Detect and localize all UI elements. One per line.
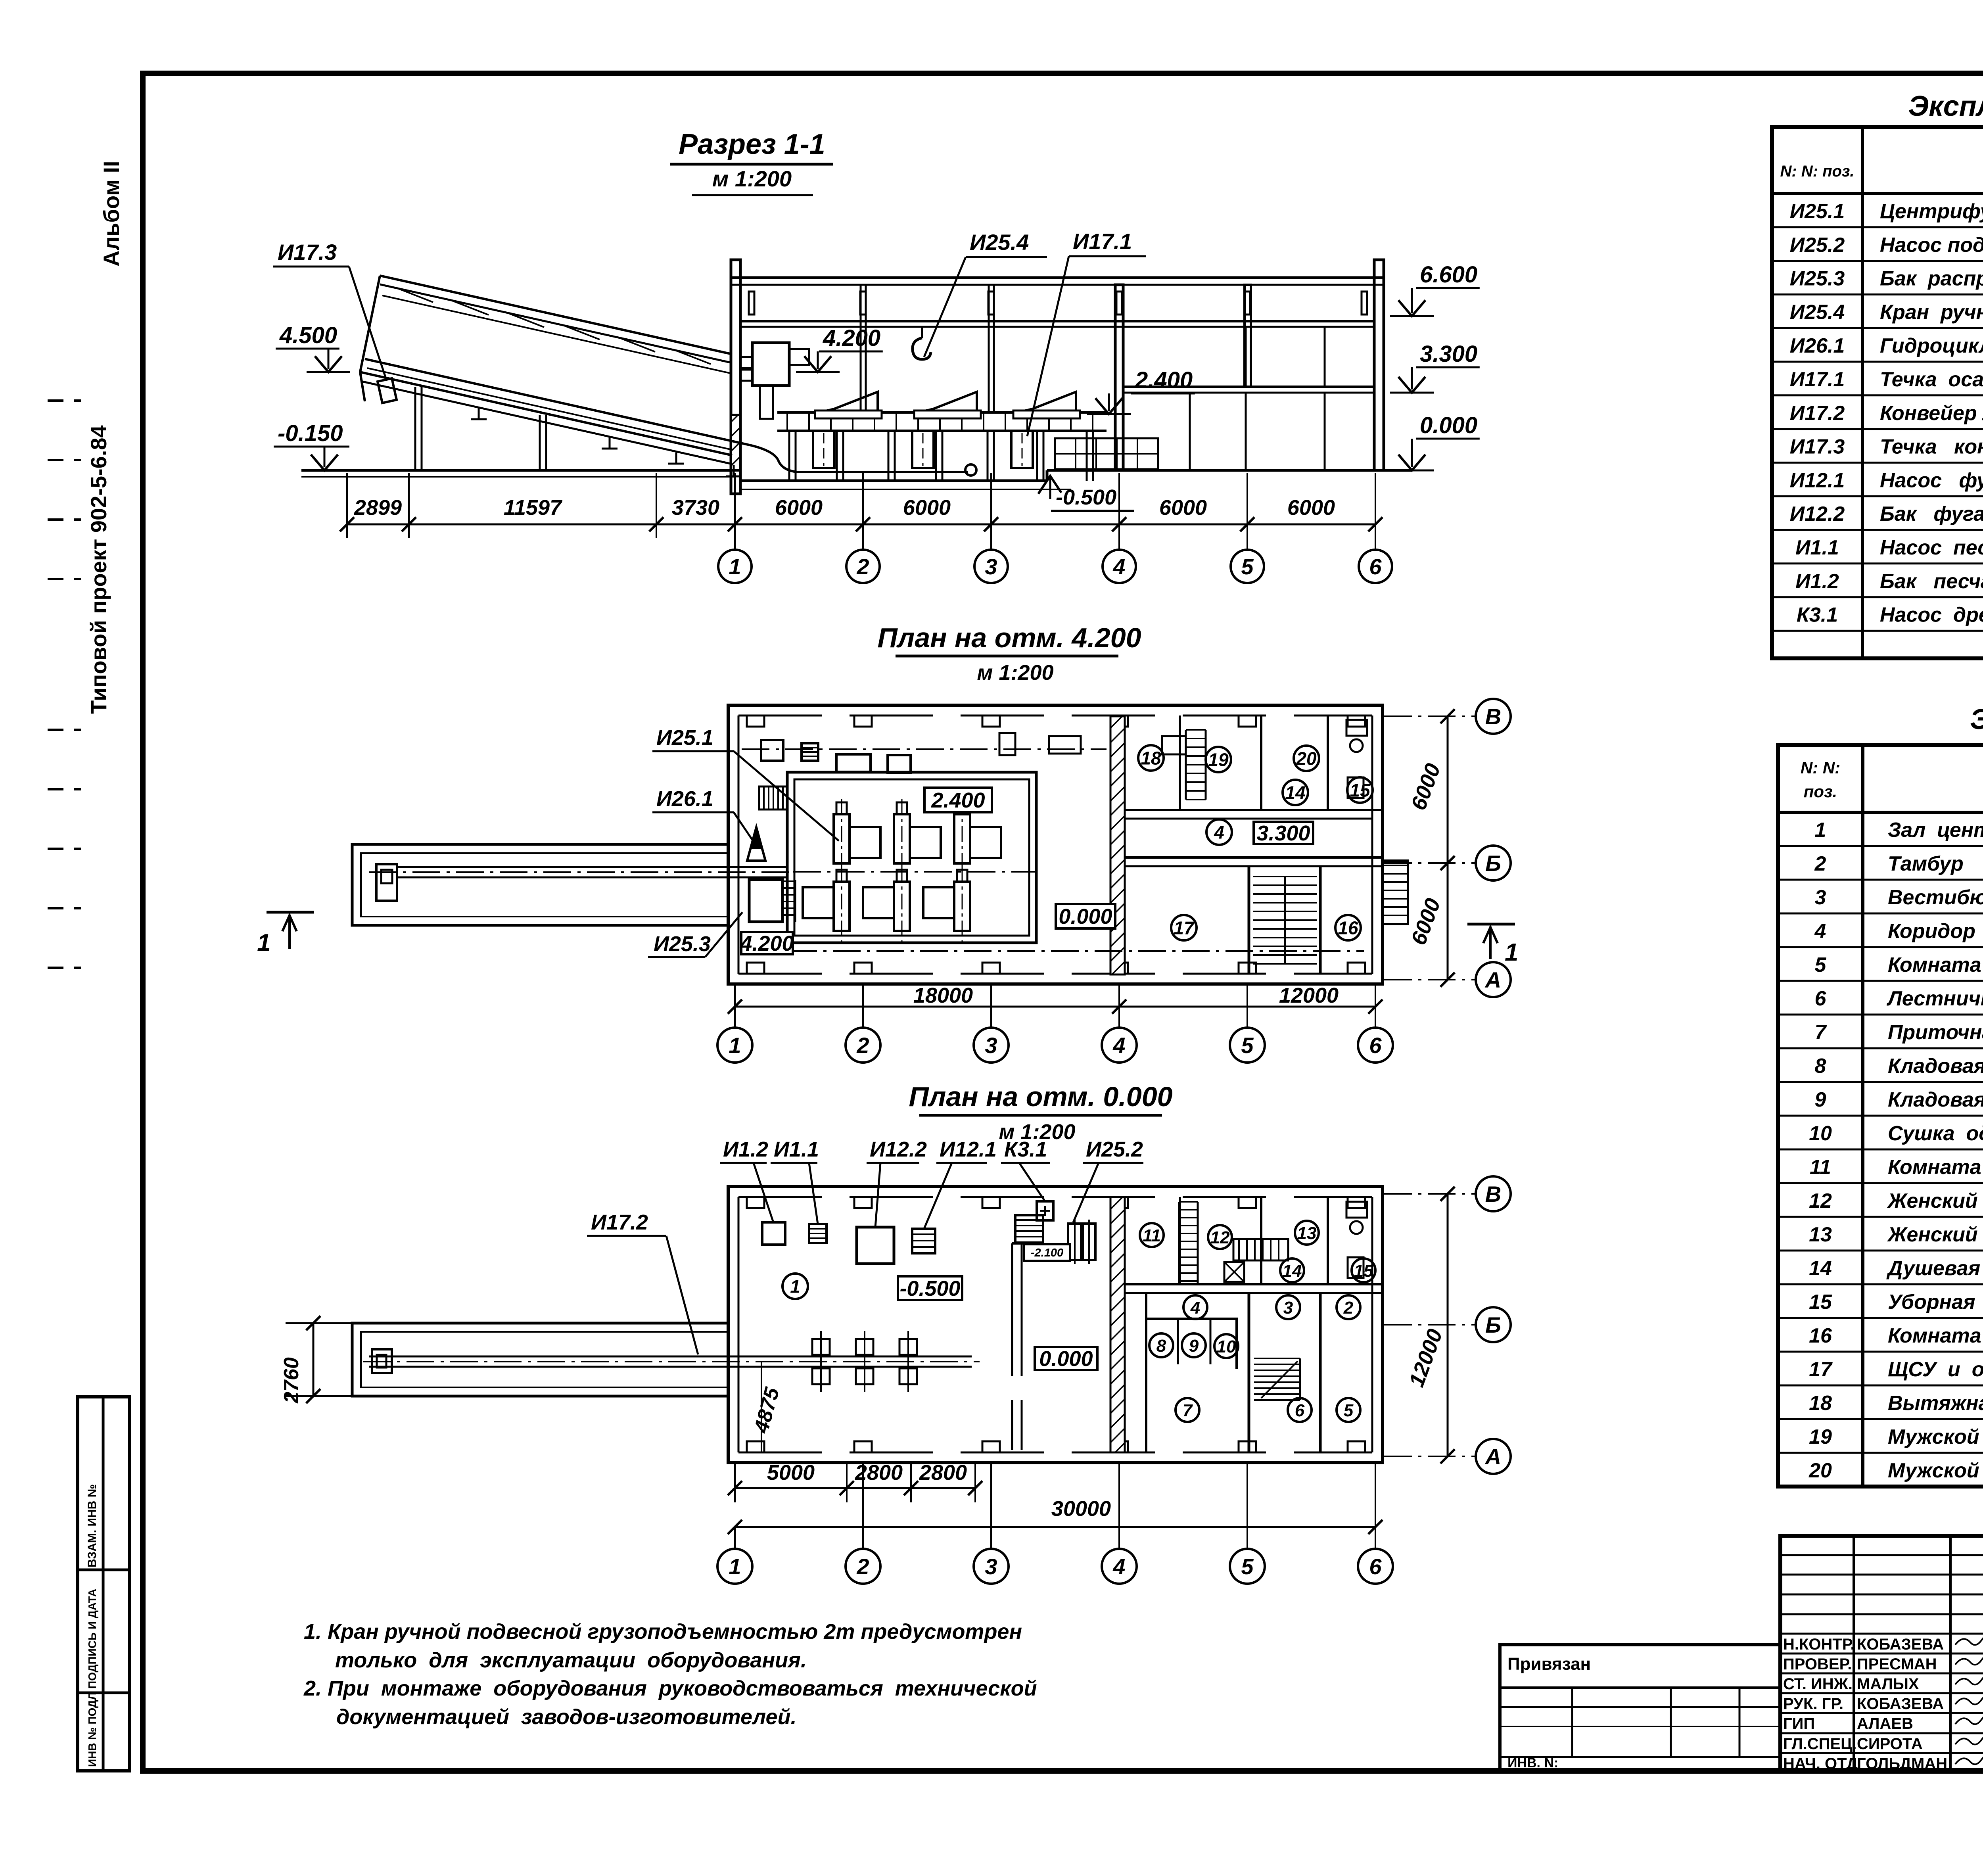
svg-text:И25.4: И25.4 <box>970 230 1029 255</box>
svg-text:ИНВ № ПОДЛ: ИНВ № ПОДЛ <box>86 1692 98 1767</box>
svg-text:Женский гардероб уличной и: Женский гардероб уличной и домашней одеж… <box>1887 1223 1983 1246</box>
svg-text:Привязан: Привязан <box>1507 1654 1591 1674</box>
svg-text:3.300: 3.300 <box>1256 821 1310 845</box>
plan 0.000: room 1 circle & level boxes <box>782 1274 808 1299</box>
svg-text:Комната начальника: Комната начальника <box>1888 1324 1983 1347</box>
svg-text:СИРОТА: СИРОТА <box>1857 1735 1923 1753</box>
plan 4.200: hydrocyclone И26.1 <box>747 827 765 861</box>
section: conveyor belt И17.2 line <box>365 359 968 472</box>
plan 4.200: ladder near left <box>759 786 787 809</box>
svg-text:Тамбур: Тамбур <box>1888 852 1964 875</box>
plan 0.000: conveyor supports in hall <box>812 1339 830 1355</box>
section: ceiling slab 6.600 double line <box>740 320 1374 322</box>
svg-text:Комната обслуживающего персо: Комната обслуживающего персонала <box>1888 953 1983 976</box>
svg-text:5: 5 <box>1344 1401 1354 1420</box>
plan 4.200: right part partition walls <box>1125 809 1383 811</box>
svg-text:10: 10 <box>1217 1337 1236 1356</box>
svg-text:12: 12 <box>1809 1189 1832 1212</box>
svg-text:Насос подачи осадка СД50/10(Ф: Насос подачи осадка СД50/10(ФГ57.5/9.5) <box>1880 234 1983 257</box>
svg-text:2: 2 <box>856 554 869 579</box>
svg-text:3.300: 3.300 <box>1420 341 1477 367</box>
section: ground floor partitions right part <box>1189 393 1191 470</box>
svg-text:16: 16 <box>1809 1324 1832 1347</box>
svg-text:3: 3 <box>985 554 997 579</box>
svg-text:7: 7 <box>1815 1021 1827 1044</box>
plan 0.000: room circles <box>1140 1223 1164 1247</box>
svg-text:ПРОВЕР.: ПРОВЕР. <box>1783 1655 1852 1673</box>
svg-text:2: 2 <box>856 1554 869 1579</box>
svg-text:19: 19 <box>1809 1425 1832 1448</box>
svg-text:5: 5 <box>1241 554 1254 579</box>
svg-text:Насос дренажный ВКС 1/16: Насос дренажный ВКС 1/16 <box>1880 604 1983 627</box>
svg-text:1: 1 <box>257 929 270 957</box>
svg-text:Вестибюль: Вестибюль <box>1888 886 1983 909</box>
svg-text:2899: 2899 <box>354 496 402 520</box>
plan 4.200: centrifuges <box>834 814 850 863</box>
svg-text:Типовой проект 902-5-6.84: Типовой проект 902-5-6.84 <box>86 425 111 714</box>
svg-text:4: 4 <box>1112 1554 1125 1579</box>
section: grid-3 post <box>989 285 994 412</box>
left fold table (ИНВ / ПОДПИСЬ / ВЗАМ) <box>78 1397 129 1771</box>
plan 0.000: tambour with stair <box>1015 1215 1043 1243</box>
plan 4.200: external stair right side <box>1383 861 1408 924</box>
section: small feet under belt <box>478 408 480 419</box>
plan 0.000: conveyor gallery <box>352 1323 728 1396</box>
plan 0.000: bench and X-box room 13 <box>1233 1239 1288 1260</box>
svg-text:5: 5 <box>1815 953 1827 976</box>
svg-text:Альбом II: Альбом II <box>99 161 124 267</box>
svg-text:4.500: 4.500 <box>279 322 337 348</box>
svg-text:30000: 30000 <box>1051 1497 1111 1521</box>
svg-text:14: 14 <box>1283 1261 1302 1281</box>
svg-text:ИНВ. N:: ИНВ. N: <box>1507 1755 1558 1770</box>
svg-text:Насос фугата СД 50/10 ( ФГ: Насос фугата СД 50/10 ( ФГ 57.5 /9.5) <box>1880 469 1983 492</box>
svg-text:Мужской гардероб уличной и: Мужской гардероб уличной и домашней одеж… <box>1888 1459 1983 1482</box>
svg-text:6000: 6000 <box>1159 496 1207 520</box>
plan 0.000: right rooms partitions <box>1125 1283 1383 1285</box>
svg-text:Приточная венткамера: Приточная венткамера <box>1888 1021 1983 1044</box>
plan 4.200: room number circles <box>1138 745 1164 771</box>
svg-text:Кран ручной подвесной Q=2т: Кран ручной подвесной Q=2т <box>1880 301 1983 324</box>
section: sludge chutes И17.1 under platform <box>813 431 834 468</box>
plan 0.000: stairwell <box>1248 1293 1250 1452</box>
svg-text:6: 6 <box>1369 1033 1382 1058</box>
section: upper floor partitions right part <box>1245 327 1247 387</box>
plan 0.000 outer walls <box>728 1187 1383 1463</box>
plan 4.200: upper equipment row <box>761 740 783 761</box>
section: gallery bottom chords <box>360 372 732 455</box>
svg-text:15: 15 <box>1354 1261 1373 1281</box>
svg-text:6: 6 <box>1369 1554 1382 1579</box>
svg-text:И17.2: И17.2 <box>1790 402 1845 425</box>
section: gallery left end cut <box>360 276 380 401</box>
svg-text:м 1:200: м 1:200 <box>712 166 792 191</box>
svg-text:только для эксплуатации обо: только для эксплуатации оборудования. <box>335 1648 807 1672</box>
plan 4.200: stairwell walls <box>1248 866 1250 974</box>
svg-text:Женский гардероб спецодежды: Женский гардероб спецодежды <box>1887 1189 1983 1212</box>
svg-text:И1.1: И1.1 <box>774 1137 819 1161</box>
svg-text:Коридор: Коридор <box>1888 920 1975 943</box>
svg-text:1: 1 <box>790 1276 800 1297</box>
svg-text:14: 14 <box>1809 1257 1832 1280</box>
svg-text:КОБАЗЕВА: КОБАЗЕВА <box>1857 1695 1944 1713</box>
svg-text:0.000: 0.000 <box>1039 1347 1093 1371</box>
svg-text:В: В <box>1485 1182 1501 1207</box>
svg-text:Зал центрифуг: Зал центрифуг <box>1888 819 1983 842</box>
svg-text:1: 1 <box>729 1033 741 1058</box>
svg-text:8: 8 <box>1815 1055 1826 1078</box>
svg-text:3: 3 <box>985 1033 997 1058</box>
svg-text:И26.1: И26.1 <box>1790 334 1845 357</box>
elevation -0.500 <box>1038 476 1061 494</box>
plan 0.000: bottom dimension lines <box>735 1487 975 1489</box>
svg-text:И17.2: И17.2 <box>591 1210 648 1234</box>
section: 3.300 floor slab right part <box>1123 386 1374 388</box>
svg-text:4: 4 <box>1814 920 1826 943</box>
svg-text:5: 5 <box>1241 1554 1254 1579</box>
Привязан block <box>1500 1645 1780 1771</box>
plan 4.200: ladder room 6 <box>1186 729 1206 731</box>
svg-text:НАЧ. ОТД: НАЧ. ОТД <box>1783 1755 1858 1772</box>
svg-text:И17.3: И17.3 <box>278 240 337 265</box>
svg-text:3730: 3730 <box>672 496 719 520</box>
svg-text:И25.1: И25.1 <box>1790 200 1845 223</box>
svg-text:5000: 5000 <box>767 1461 815 1485</box>
plan 0.000: hall right wall <box>1011 1243 1013 1376</box>
svg-text:А: А <box>1484 967 1501 992</box>
svg-text:15: 15 <box>1350 780 1371 801</box>
section: left pit wall <box>731 260 740 494</box>
plan 4.200: grid circles <box>734 1007 736 1028</box>
svg-text:2760: 2760 <box>280 1357 303 1404</box>
plan 0.000: right grid circles <box>1384 1193 1476 1195</box>
svg-text:2800: 2800 <box>855 1461 903 1485</box>
svg-text:Экспликация помещений: Экспликация помещений <box>1970 704 1983 735</box>
leaders from labels to equipment <box>754 1163 773 1222</box>
svg-text:И17.1: И17.1 <box>1790 368 1845 391</box>
svg-text:К3.1: К3.1 <box>1004 1137 1047 1161</box>
svg-text:19: 19 <box>1208 750 1229 770</box>
svg-text:И12.2: И12.2 <box>1790 503 1845 526</box>
plan 4.200: right grid circles <box>1384 715 1476 717</box>
section: distribution tank И25.3 <box>752 343 789 386</box>
svg-text:ГЛ.СПЕЦ.: ГЛ.СПЕЦ. <box>1783 1735 1857 1753</box>
plan 4.200: conveyor gallery <box>352 844 728 925</box>
svg-text:И12.2: И12.2 <box>870 1137 927 1161</box>
svg-text:МАЛЫХ: МАЛЫХ <box>1857 1675 1919 1693</box>
svg-text:1: 1 <box>729 554 741 579</box>
svg-text:14: 14 <box>1285 783 1305 803</box>
section: grid-5 column <box>1245 285 1251 387</box>
svg-text:ПРЕСМАН: ПРЕСМАН <box>1857 1655 1937 1673</box>
svg-text:9: 9 <box>1815 1088 1826 1111</box>
section: right wall column <box>1374 260 1384 470</box>
svg-text:8: 8 <box>1156 1336 1166 1356</box>
plan 4.200: grid-4 hatched wall <box>1110 716 1125 974</box>
svg-text:5: 5 <box>1241 1033 1254 1058</box>
plan 0.000: ladder room 11/12 <box>1179 1201 1198 1203</box>
svg-text:ГИП: ГИП <box>1783 1715 1815 1732</box>
section: crane hook И25.4 <box>921 327 923 338</box>
plan 0.000: grid-4 hatched wall <box>1110 1197 1125 1452</box>
svg-text:4.200: 4.200 <box>823 325 880 351</box>
svg-text:2: 2 <box>856 1033 869 1058</box>
svg-text:И25.3: И25.3 <box>654 932 711 956</box>
svg-text:КОБАЗЕВА: КОБАЗЕВА <box>1857 1636 1944 1653</box>
svg-text:1: 1 <box>729 1554 741 1579</box>
section: platform band verticals <box>786 412 788 431</box>
svg-text:Лестничная клетка: Лестничная клетка <box>1886 987 1983 1010</box>
section: conveyor gallery И17.3 top chords <box>380 276 732 354</box>
svg-text:10: 10 <box>1809 1122 1832 1145</box>
svg-text:18: 18 <box>1141 748 1161 769</box>
plan 4.200: elevation boxes <box>924 788 992 812</box>
plan 0.000: conveyor belt through hall <box>369 1356 972 1358</box>
section: gallery truss panel lines <box>397 288 433 302</box>
svg-text:12: 12 <box>1210 1228 1230 1247</box>
svg-text:И25.2: И25.2 <box>1086 1137 1143 1161</box>
svg-text:N: N: поз.: N: N: поз. <box>1780 163 1854 180</box>
svg-text:4: 4 <box>1112 554 1125 579</box>
svg-text:6000: 6000 <box>903 496 951 520</box>
svg-text:РУК. ГР.: РУК. ГР. <box>1783 1695 1843 1713</box>
svg-text:N: N:: N: N: <box>1801 758 1840 777</box>
svg-text:4.200: 4.200 <box>740 932 794 955</box>
svg-text:11: 11 <box>1810 1156 1831 1179</box>
svg-text:АЛАЕВ: АЛАЕВ <box>1857 1715 1913 1732</box>
svg-text:20: 20 <box>1296 748 1317 769</box>
svg-text:15: 15 <box>1809 1291 1832 1314</box>
svg-text:2: 2 <box>1343 1298 1354 1318</box>
svg-text:6000: 6000 <box>775 496 823 520</box>
svg-text:И1.2: И1.2 <box>1795 570 1839 593</box>
svg-text:И1.1: И1.1 <box>1795 536 1839 559</box>
svg-text:11597: 11597 <box>504 496 563 520</box>
svg-text:И25.2: И25.2 <box>1790 234 1845 257</box>
svg-text:18: 18 <box>1809 1392 1832 1415</box>
svg-text:Центрифуга ОГШ-352К-03: Центрифуга ОГШ-352К-03 <box>1880 200 1983 223</box>
svg-text:6: 6 <box>1815 987 1827 1010</box>
svg-text:И17.1: И17.1 <box>1073 229 1132 254</box>
svg-text:Н.КОНТР.: Н.КОНТР. <box>1783 1636 1855 1653</box>
section: gallery support legs <box>414 387 416 470</box>
svg-text:ЩСУ и операторская: ЩСУ и операторская <box>1888 1358 1983 1381</box>
svg-text:3: 3 <box>1815 886 1826 909</box>
plan 0.000: grid circles <box>734 1527 736 1549</box>
section grid circles 1-6 <box>734 524 736 549</box>
svg-text:В: В <box>1485 704 1501 729</box>
svg-text:А: А <box>1484 1444 1501 1469</box>
svg-text:документацией заводов-изготов: документацией заводов-изготовителей. <box>336 1705 797 1729</box>
section: grid-4 column <box>1115 285 1123 470</box>
svg-text:4: 4 <box>1214 822 1224 843</box>
section: pit floor -0.500 <box>740 480 1047 482</box>
svg-text:2.400: 2.400 <box>931 788 985 812</box>
svg-text:-0.500: -0.500 <box>899 1277 960 1301</box>
svg-text:-0.500: -0.500 <box>1056 485 1116 509</box>
svg-text:Комната приема пищи: Комната приема пищи <box>1888 1156 1983 1179</box>
svg-text:2. При монтаже оборудования: 2. При монтаже оборудования руководствов… <box>303 1677 1037 1700</box>
svg-text:Течка концевая: Течка концевая <box>1880 435 1983 458</box>
plan 4.200: tank И25.3 <box>749 880 782 922</box>
svg-text:Вытяжная венткамера: Вытяжная венткамера <box>1888 1392 1983 1415</box>
svg-text:ГОЛЬДМАН: ГОЛЬДМАН <box>1857 1755 1947 1772</box>
plan 0.000: partitions rooms 5-7 <box>1145 1293 1147 1452</box>
svg-text:3: 3 <box>985 1554 997 1579</box>
svg-text:К3.1: К3.1 <box>1797 604 1838 627</box>
svg-text:0.000: 0.000 <box>1420 412 1477 438</box>
svg-text:И12.1: И12.1 <box>940 1137 997 1161</box>
svg-text:И12.1: И12.1 <box>1790 469 1845 492</box>
plan 4.200: right vertical dim <box>1447 716 1449 980</box>
svg-text:7: 7 <box>1183 1401 1193 1420</box>
section: end chute И17.3 <box>378 378 397 403</box>
svg-text:12000: 12000 <box>1279 984 1339 1007</box>
svg-text:Уборная: Уборная <box>1888 1291 1975 1314</box>
plan 0.000: room 8-10 stalls <box>1146 1319 1237 1369</box>
svg-text:И26.1: И26.1 <box>656 787 713 811</box>
svg-text:Экспликация оборудования: Экспликация оборудования <box>1908 90 1983 122</box>
svg-text:поз.: поз. <box>1804 782 1837 801</box>
svg-text:3: 3 <box>1283 1298 1293 1318</box>
plan 0.000: WC fixtures <box>1346 1202 1367 1218</box>
svg-text:6: 6 <box>1369 554 1382 579</box>
svg-text:18000: 18000 <box>913 984 973 1007</box>
plan 4.200: bottom dimension line <box>735 1006 1375 1008</box>
svg-text:1: 1 <box>1505 939 1518 966</box>
svg-text:м 1:200: м 1:200 <box>977 661 1053 685</box>
svg-text:1. Кран ручной подвесной грузо: 1. Кран ручной подвесной грузоподъемност… <box>304 1620 1022 1644</box>
svg-text:Течка осадка: Течка осадка <box>1880 368 1983 391</box>
section: centrifuge platform slab 2.400 <box>777 411 1107 414</box>
plan 4.200: section cut marks <box>267 911 314 914</box>
svg-text:ВЗАМ. ИНВ №: ВЗАМ. ИНВ № <box>86 1484 99 1567</box>
svg-text:20: 20 <box>1808 1459 1832 1482</box>
svg-text:Разрез 1-1: Разрез 1-1 <box>679 129 825 160</box>
svg-text:Б: Б <box>1485 1312 1501 1337</box>
svg-text:6.600: 6.600 <box>1420 262 1477 288</box>
svg-text:6000: 6000 <box>1287 496 1335 520</box>
svg-text:-0.150: -0.150 <box>278 420 343 446</box>
svg-text:2: 2 <box>1814 852 1826 875</box>
plan 0.000: equipment items <box>762 1222 785 1245</box>
left margin fold dashes <box>48 399 81 402</box>
section: floor blocks right of pit <box>1055 438 1158 469</box>
svg-text:4: 4 <box>1190 1298 1200 1318</box>
svg-text:-2.100: -2.100 <box>1031 1247 1063 1259</box>
svg-text:Бак фугата: Бак фугата <box>1880 503 1983 526</box>
svg-text:Бак распределитель осадка: Бак распределитель осадка <box>1880 267 1983 290</box>
plan 4.200: centrifuge platform rect <box>787 772 1036 943</box>
plan 4.200: conveyor in gallery <box>397 866 787 868</box>
svg-text:2.400: 2.400 <box>1135 367 1193 393</box>
plan 0.000: vertical dim 2760 at gallery left <box>313 1323 315 1396</box>
section: centrifuges on platform <box>819 392 878 412</box>
svg-text:И25.3: И25.3 <box>1790 267 1845 290</box>
svg-text:Сушка одежды: Сушка одежды <box>1888 1122 1983 1145</box>
room 4 circle <box>1206 819 1232 845</box>
svg-text:4: 4 <box>1112 1033 1125 1058</box>
svg-text:Кладовая грязной спецодежды: Кладовая грязной спецодежды <box>1888 1055 1983 1078</box>
plan 4.200 outer walls <box>728 705 1383 984</box>
svg-text:Конвейер ленточный В=650мм ;: Конвейер ленточный В=650мм ; L=28800мм <box>1880 402 1983 425</box>
plan 4.200: WC fixtures room 15 <box>1346 720 1367 736</box>
svg-text:ПОДПИСЬ И ДАТА: ПОДПИСЬ И ДАТА <box>86 1589 98 1689</box>
svg-text:Мужской гардероб спецодежды: Мужской гардероб спецодежды <box>1888 1425 1983 1448</box>
svg-text:9: 9 <box>1189 1336 1199 1356</box>
svg-text:И25.4: И25.4 <box>1790 301 1845 324</box>
svg-text:17: 17 <box>1174 918 1195 938</box>
svg-text:План на отм. 0.000: План на отм. 0.000 <box>909 1081 1172 1112</box>
plan 4.200: stairwell treads <box>1253 876 1317 877</box>
svg-text:16: 16 <box>1338 918 1358 938</box>
svg-text:0.000: 0.000 <box>1059 905 1112 928</box>
svg-text:И25.1: И25.1 <box>656 726 713 750</box>
svg-text:СТ. ИНЖ.: СТ. ИНЖ. <box>1783 1675 1853 1693</box>
svg-text:Бак песчаной пульпы: Бак песчаной пульпы <box>1880 570 1983 593</box>
svg-text:17: 17 <box>1809 1358 1833 1381</box>
section: grid-2 post <box>861 285 866 412</box>
svg-text:11: 11 <box>1143 1226 1161 1245</box>
section dimension line <box>347 524 1375 526</box>
svg-text:План на отм. 4.200: План на отм. 4.200 <box>877 622 1141 653</box>
svg-text:Б: Б <box>1485 851 1501 876</box>
svg-text:13: 13 <box>1297 1224 1317 1243</box>
svg-text:Кладовая чистой спецодежды: Кладовая чистой спецодежды <box>1888 1088 1983 1111</box>
section: conveyor head pulley <box>965 464 976 476</box>
section: wall slots <box>749 292 754 315</box>
svg-text:Гидроциклон ГЦР-150: Гидроциклон ГЦР-150 <box>1880 334 1983 357</box>
section: roof parapet double line <box>731 276 1384 279</box>
section: ground line 0.000 <box>301 469 731 472</box>
plan 4.200: dash-dot centerlines <box>742 748 1107 750</box>
svg-text:6: 6 <box>1295 1401 1305 1420</box>
svg-text:И1.2: И1.2 <box>723 1137 768 1161</box>
svg-text:2800: 2800 <box>919 1461 967 1485</box>
svg-text:Душевая: Душевая <box>1886 1257 1980 1280</box>
svg-text:1: 1 <box>1815 819 1826 842</box>
svg-text:Насос песчаной пульпы П 1: Насос песчаной пульпы П 12.5 /12.5 <box>1880 536 1983 559</box>
svg-text:И17.3: И17.3 <box>1790 435 1845 458</box>
svg-text:13: 13 <box>1809 1223 1832 1246</box>
